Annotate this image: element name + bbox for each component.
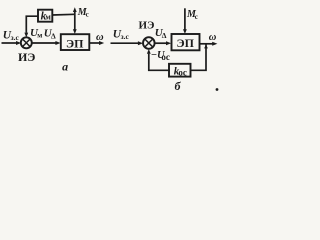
- svg-text:ИЭ: ИЭ: [138, 20, 154, 32]
- svg-text:с: с: [86, 11, 89, 19]
- label U_m: [30, 27, 42, 40]
- label Mc (b): [186, 9, 198, 21]
- block EP (b): [172, 34, 200, 50]
- svg-text:з.с: з.с: [121, 32, 130, 41]
- label U_z.s (b): [113, 29, 130, 42]
- svg-text:м: м: [45, 12, 51, 21]
- wire junction to EP block (a): [32, 41, 61, 45]
- wire Mc (disturbance) with up arrow at top: [73, 7, 77, 34]
- label U_delta (a): [44, 28, 56, 41]
- label -U_os: [151, 50, 170, 62]
- svg-text:ω: ω: [209, 32, 217, 43]
- svg-text:Δ: Δ: [162, 31, 167, 40]
- label Mc (a): [77, 7, 89, 19]
- svg-text:м: м: [37, 31, 42, 40]
- svg-text:ЭП: ЭП: [66, 36, 84, 50]
- svg-text:ос: ос: [178, 68, 187, 78]
- block kos: [169, 64, 191, 78]
- wire Mc input (b): [183, 8, 187, 34]
- wire km input from Mc line: [52, 13, 75, 16]
- summing junction S1 (a): [21, 37, 32, 48]
- wire output omega (a): [89, 41, 104, 45]
- svg-text:а: а: [62, 59, 68, 73]
- wire junction to EP block (b): [155, 41, 172, 45]
- block EP (a): [61, 34, 90, 50]
- svg-text:Δ: Δ: [51, 31, 56, 40]
- wire km output to junction: [24, 16, 38, 37]
- wire feedback to junction bottom: [147, 49, 170, 70]
- wire input Uzs (diagram a): [2, 41, 22, 45]
- wire output omega (b): [200, 42, 218, 46]
- label U_z.s (a): [3, 29, 20, 42]
- svg-text:з.с: з.с: [11, 33, 20, 42]
- wire input Uzs (diagram b): [111, 41, 144, 45]
- svg-text:ЭП: ЭП: [177, 36, 195, 50]
- speck artifact: [216, 88, 219, 91]
- label U_delta (b): [155, 27, 167, 40]
- svg-text:ос: ос: [161, 52, 170, 62]
- svg-text:б: б: [175, 79, 182, 93]
- svg-text:ω: ω: [96, 32, 104, 43]
- node feedback tap on output: [204, 45, 208, 49]
- svg-text:с: с: [195, 13, 198, 21]
- block km: [38, 10, 52, 23]
- svg-text:ИЭ: ИЭ: [18, 50, 35, 64]
- wire feedback down from output: [191, 44, 207, 71]
- summing junction S2 (b): [143, 37, 155, 49]
